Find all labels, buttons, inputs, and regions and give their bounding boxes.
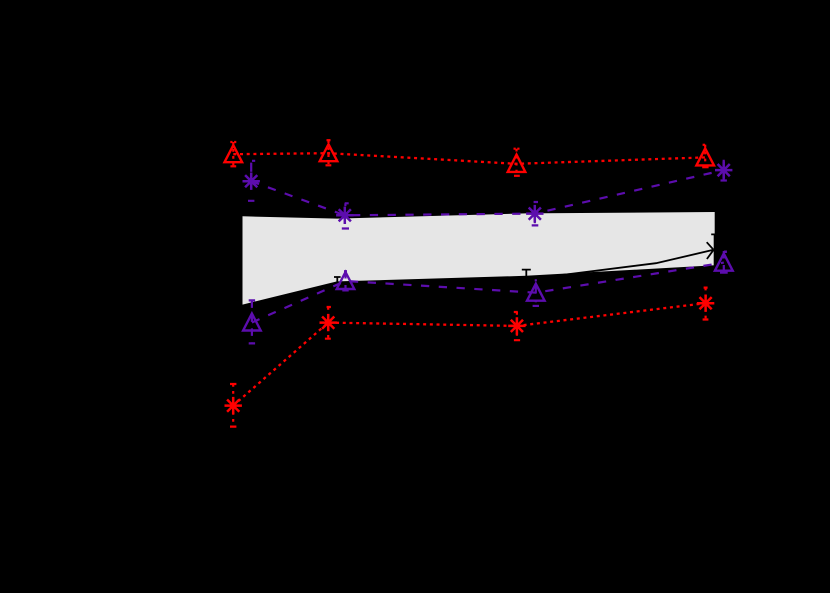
purple lower series: open triangle markers [243, 254, 733, 331]
red bottom series: asterisk markers [225, 295, 715, 415]
black error bar at x=714.6 (top cap at band right edge) [711, 234, 718, 266]
purple lower series: error bars [249, 251, 728, 343]
red top series: error bars [230, 140, 708, 176]
red bottom series: dotted line [233, 303, 705, 405]
red bottom series: error bars [230, 288, 708, 427]
black error bar at x=526 (top cap visible over band) [522, 270, 531, 296]
black annotation arrow onto band [526, 242, 713, 279]
purple upper series: asterisk markers [243, 161, 733, 224]
purple lower series: dashed line [252, 263, 724, 323]
purple upper series: dashed line [251, 170, 724, 215]
red top series: dotted line [233, 153, 705, 164]
black error bar at x=337 (top cap visible over band) [334, 277, 341, 292]
purple upper series: error bars [248, 160, 727, 229]
red top series: open triangle markers [225, 144, 715, 172]
confidence band (gray polygon) [243, 212, 715, 305]
